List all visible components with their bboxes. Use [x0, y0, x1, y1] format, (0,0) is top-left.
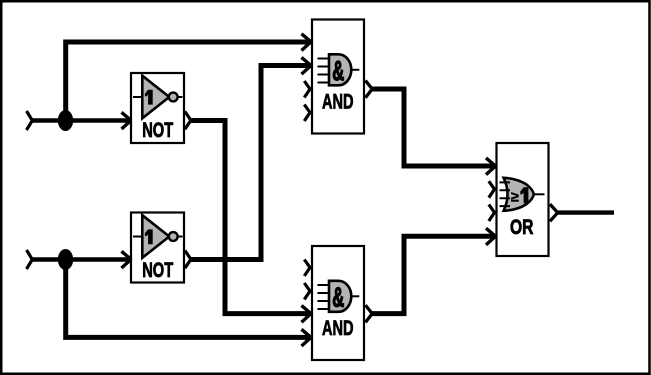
NOT gate 2 triangle	[142, 215, 169, 258]
input A source chevron	[27, 111, 33, 130]
NOT gate 2 box	[131, 213, 184, 283]
svg-text:&: &	[332, 281, 344, 312]
wire node B down and across to AND2 pin 4	[66, 260, 310, 338]
NOT gate 2 input stub	[133, 236, 142, 238]
arrowhead into NOT1 input	[122, 112, 132, 129]
NOT gate 2 bubble	[169, 232, 178, 241]
AND gate 2 output chevron	[365, 305, 372, 322]
AND gate 1 symbol ampersand	[332, 55, 344, 86]
AND gate 2 symbol input stubs	[318, 285, 331, 309]
AND gate 1 output chevron	[365, 81, 372, 98]
wire NOT2 output to AND1 pin 2	[191, 66, 311, 260]
AND gate 2 symbol output stub	[352, 295, 360, 297]
svg-text:OR: OR	[510, 216, 534, 239]
svg-text:NOT: NOT	[142, 119, 173, 142]
OR gate open pin 2 chevron	[489, 181, 495, 198]
svg-text:≥: ≥	[511, 189, 519, 205]
AND gate 2 open pin 1 chevron	[304, 260, 310, 277]
wire AND2 output to OR pin 4	[372, 236, 495, 313]
OR gate symbol input stubs	[500, 182, 511, 206]
arrowhead into AND2 pin 3	[302, 306, 312, 323]
AND gate 1 open pin 4 chevron	[304, 105, 310, 122]
OR gate open pin 3 chevron	[489, 205, 495, 222]
wire AND1 output to OR pin 1	[372, 89, 495, 166]
junction node A	[58, 110, 73, 131]
NOT gate 2 output chevron	[185, 251, 191, 269]
wire NOT1 output to AND2 pin 3	[191, 121, 311, 314]
NOT gate 1 box	[131, 73, 184, 143]
junction node B	[58, 249, 73, 270]
wire input B to NOT2	[31, 257, 130, 262]
svg-text:AND: AND	[322, 317, 354, 340]
AND gate 2 symbol ampersand	[332, 281, 344, 312]
OR gate box	[497, 143, 549, 256]
NOT gate 2 label NOT	[142, 259, 173, 282]
OR gate output chevron	[550, 204, 558, 221]
AND gate 2 label AND	[322, 317, 354, 340]
input B source chevron	[27, 250, 33, 269]
svg-text:NOT: NOT	[142, 259, 173, 282]
arrowhead into NOT2 input	[122, 251, 132, 268]
NOT gate 1 output stub	[178, 96, 183, 98]
NOT gate 1 bubble	[169, 93, 178, 102]
NOT gate 1 triangle	[142, 76, 169, 119]
arrowhead into OR pin 4	[486, 228, 496, 245]
OR gate label OR	[510, 216, 534, 239]
wire OR output	[558, 210, 615, 214]
NOT gate 1 input stub	[133, 96, 142, 98]
OR gate symbol body	[504, 178, 534, 211]
arrowhead into OR pin 1	[486, 158, 496, 175]
AND gate 2 open pin 2 chevron	[304, 283, 310, 300]
AND gate 1 symbol input stubs	[318, 59, 331, 83]
NOT gate 1 label NOT	[142, 119, 173, 142]
NOT gate 1 output chevron	[185, 112, 191, 130]
arrowhead into AND2 pin 4	[302, 329, 312, 346]
OR gate symbol label greater-equal 1	[511, 187, 528, 205]
AND gate 1 box	[312, 20, 364, 134]
wire node A up and across to AND1 pin 1	[66, 42, 310, 121]
NOT gate 2 output stub	[178, 236, 183, 238]
OR gate symbol output stub	[533, 193, 544, 195]
AND gate 2 box	[312, 246, 364, 360]
wire input A to NOT1	[31, 118, 130, 123]
svg-text:AND: AND	[322, 90, 354, 113]
NOT gate 1 value label 1	[145, 90, 153, 105]
arrowhead into AND1 pin 2	[302, 57, 312, 74]
svg-text:&: &	[332, 55, 344, 86]
NOT gate 2 value label 1	[145, 229, 153, 244]
AND gate 1 open pin 3 chevron	[304, 81, 310, 98]
arrowhead into AND1 pin 1	[302, 34, 312, 51]
AND gate 1 label AND	[322, 90, 354, 113]
AND gate 1 symbol body	[329, 54, 351, 85]
AND gate 2 symbol body	[329, 281, 351, 312]
AND gate 1 symbol output stub	[352, 69, 360, 71]
